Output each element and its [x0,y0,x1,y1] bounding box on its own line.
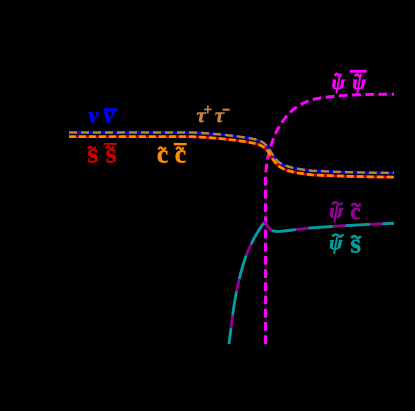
label nu-bar (second nu glyph) [104,112,114,123]
superscript plus [204,106,211,113]
tilde over s of psi-s [351,236,361,238]
curve psitilde-stilde branching ratio (teal dashed over purple) [229,222,394,344]
tilde over first s [88,147,96,149]
curve psitilde-ctilde branching ratio (purple solid under teal dashes) [229,222,394,344]
curve stilde-sbar branching ratio (red dashed, drawn solid under orange dashes) [69,137,394,178]
label sbar-tilde (second s glyph) [107,149,116,162]
label psitilde of psi-s (psi glyph) [330,237,343,253]
label tau- (tau glyph) [215,112,224,122]
overbar of second c [174,143,187,145]
tilde over first c [158,147,166,149]
label ctilde (c glyph) [158,150,168,162]
label ctilde of psi-c (c glyph) [351,208,360,219]
label cbar-tilde (second c glyph) [176,150,186,162]
tilde over psi of psi-c [332,202,342,204]
tilde over first psi [335,74,342,76]
label psibar-tilde (second psi glyph) [353,77,366,94]
superscript minus [223,109,230,111]
curve psitilde-psibar branching ratio (magenta dashed with vertical threshold at x=265) [266,94,395,344]
label tau+ (tau glyph) [197,112,206,122]
tilde over second c [176,147,184,149]
tilde over psi of psi-s [332,234,343,236]
overbar of second s [104,143,117,145]
overbar of nu-bar [104,108,118,111]
tilde over c of psi-c [351,204,361,206]
overbar of second psi [350,70,367,73]
tilde over second s [106,147,114,149]
label nu (first nu glyph) [89,112,99,123]
label psitilde of psi-c (psi glyph) [330,205,343,222]
label psitilde (psi glyph) [332,77,345,94]
label stilde (s glyph) [88,149,97,162]
curve tau+tau- branching ratio (brown dashed, over blue) [69,133,394,173]
tilde over second psi [355,74,362,76]
label stilde of psi-s (s glyph) [351,240,360,253]
curve ctilde-cbar branching ratio (orange dashed, over red) [69,137,394,178]
curve nu-nubar branching ratio (blue dashed, drawn solid under brown dashes) [69,133,394,173]
